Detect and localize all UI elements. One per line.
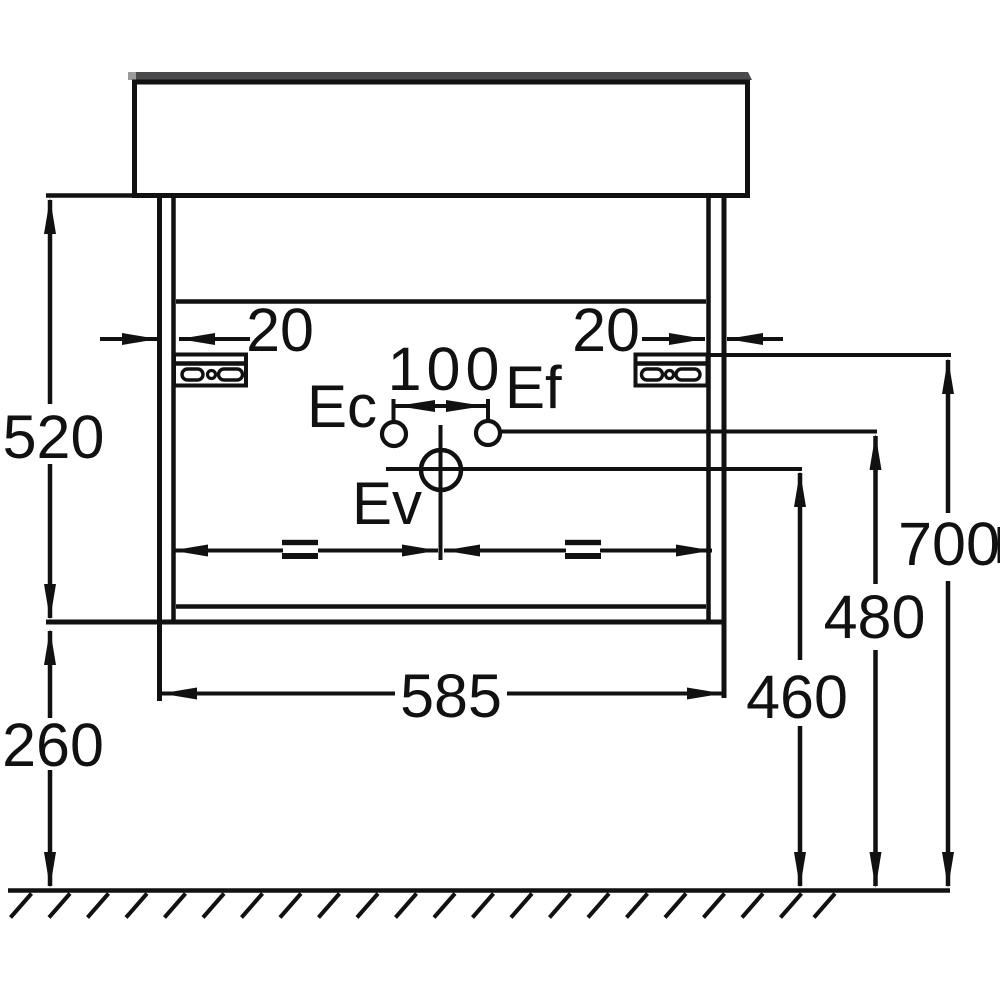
- reference line through Ev to 460 dimension: [386, 467, 802, 471]
- svg-text:20: 20: [572, 296, 640, 364]
- equal halves arrows: [172, 545, 208, 557]
- dimension 100 right tick: [486, 399, 490, 423]
- dimension 700 vertical line: [946, 360, 951, 513]
- left mounting bracket: [174, 355, 246, 386]
- cabinet right outer wall + 585 right extension: [722, 196, 727, 698]
- drain Ev circle: [421, 450, 461, 490]
- svg-text:700: 700: [898, 510, 1000, 578]
- cabinet inner bottom panel line: [176, 604, 706, 609]
- countertop bottom extension line (520 top tick): [46, 193, 748, 198]
- svg-text:585: 585: [400, 662, 502, 730]
- svg-text:460: 460: [746, 663, 848, 731]
- equal sign right: [565, 540, 601, 545]
- svg-text:20: 20: [246, 296, 314, 364]
- extension line from bracket top to 700 dimension: [709, 353, 951, 357]
- ground line: [8, 888, 950, 893]
- svg-text:520: 520: [3, 403, 105, 471]
- dimension 100 left tick: [392, 399, 396, 424]
- countertop body: [135, 82, 748, 196]
- center axis vertical line: [439, 425, 443, 560]
- cabinet left outer wall + 585 left extension: [157, 196, 162, 701]
- clipped glyph after 700 at image edge: [998, 527, 1000, 563]
- svg-text:100: 100: [388, 335, 505, 403]
- ground hatching: [11, 894, 836, 918]
- svg-text:480: 480: [824, 583, 926, 651]
- dimension 520 vertical line: [48, 200, 53, 404]
- dimension 585 line segments and arrows: [161, 692, 395, 696]
- hole Ef circle: [476, 421, 500, 445]
- svg-text:Ev: Ev: [352, 470, 422, 537]
- cabinet bottom line with left extension (520/260 tick): [46, 620, 726, 625]
- dimension 480 vertical line: [873, 436, 878, 584]
- reference line from Ef to 480 dimension: [498, 430, 877, 434]
- right mounting bracket: [636, 355, 708, 386]
- svg-text:260: 260: [2, 711, 104, 779]
- equal halves dimension line segments: [172, 549, 283, 553]
- cabinet right inner wall line: [706, 196, 711, 622]
- dimension 20 left: inside line and arrow: [179, 337, 250, 341]
- svg-text:Ec: Ec: [307, 373, 377, 440]
- cabinet inner top panel line: [176, 299, 706, 304]
- equal sign left: [282, 540, 318, 545]
- dimension 20 left: outside line and arrow: [100, 337, 158, 341]
- svg-text:Ef: Ef: [505, 354, 562, 421]
- cabinet left inner wall line: [171, 196, 176, 622]
- dimension 20 right: inside line and arrow: [642, 337, 705, 341]
- dimension 260 vertical line: [48, 631, 53, 718]
- dimension 20 right: outside line and arrow: [727, 337, 783, 341]
- dimension 460 vertical line: [798, 473, 803, 660]
- dimension 100 line with outward arrows: [394, 404, 489, 408]
- hole Ec circle: [382, 422, 406, 446]
- countertop gray top strip: [128, 72, 752, 80]
- countertop strip left cap: [128, 72, 136, 80]
